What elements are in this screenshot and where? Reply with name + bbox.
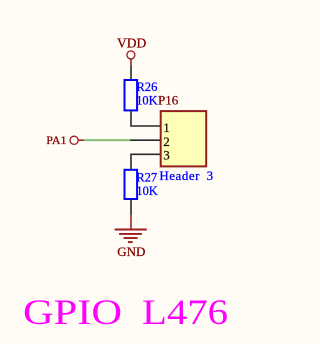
resistor R26 — [125, 80, 138, 110]
wire pin3 stub — [131, 154, 161, 170]
power port VDD circle — [127, 51, 135, 59]
power port VDD stub — [130, 59, 132, 66]
svg-text:VDD: VDD — [117, 35, 146, 50]
ground bar 4 — [128, 241, 133, 243]
wire VDD to R26 — [130, 66, 132, 81]
ground bar 3 — [124, 237, 138, 239]
svg-text:PA1: PA1 — [46, 133, 66, 147]
svg-text:1: 1 — [163, 120, 170, 135]
port PA1 circle — [70, 136, 78, 144]
wire R27 to GND — [130, 199, 132, 215]
wire green PA1 net — [84, 139, 131, 141]
svg-text:3: 3 — [163, 148, 170, 163]
connector J header 3 body — [161, 111, 207, 166]
ground bar 2 — [119, 233, 142, 235]
ground stub — [130, 215, 132, 230]
svg-text:2: 2 — [163, 134, 170, 149]
svg-text:P16: P16 — [158, 93, 179, 108]
svg-text:Header: Header — [159, 168, 200, 183]
svg-text:GND: GND — [117, 244, 145, 259]
svg-text:L476: L476 — [142, 292, 228, 332]
svg-text:3: 3 — [207, 168, 214, 183]
wire R26 to pin1 — [131, 110, 161, 126]
port PA1 stub — [78, 139, 84, 141]
svg-text:10K: 10K — [136, 94, 157, 108]
svg-text:R26: R26 — [136, 80, 157, 94]
svg-text:R27: R27 — [136, 170, 157, 184]
svg-text:GPIO: GPIO — [23, 292, 122, 332]
wire pin2 stub — [130, 139, 161, 141]
svg-text:10K: 10K — [136, 184, 157, 198]
ground bar 1 — [115, 229, 147, 231]
resistor R27 — [125, 170, 138, 199]
